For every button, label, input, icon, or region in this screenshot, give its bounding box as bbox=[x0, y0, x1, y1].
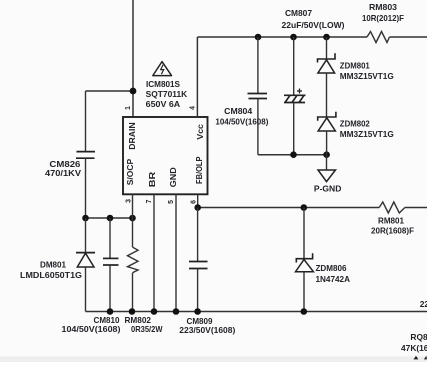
node rail CM809 bbox=[194, 308, 201, 315]
resistor RQ8xx top marks bbox=[414, 356, 419, 360]
svg-text:SQT7011K: SQT7011K bbox=[146, 89, 188, 99]
node bus pin3 bbox=[129, 215, 136, 222]
svg-text:104/50V(1608): 104/50V(1608) bbox=[62, 324, 121, 334]
node mid rail CM807 bbox=[290, 151, 297, 158]
node rail CM810 bbox=[107, 308, 114, 315]
svg-text:Vcc: Vcc bbox=[195, 124, 205, 140]
svg-text:BR: BR bbox=[147, 172, 157, 188]
wire top rail bbox=[197, 36, 367, 38]
warning triangle bbox=[153, 62, 172, 76]
svg-text:DM801: DM801 bbox=[40, 260, 66, 270]
wire lower-left bus bbox=[86, 217, 133, 219]
svg-text:MM3Z15VT1G: MM3Z15VT1G bbox=[340, 71, 394, 81]
wire pin4 to top rail bbox=[196, 37, 198, 117]
svg-text:RQ80: RQ80 bbox=[410, 332, 427, 342]
diode DM801 bbox=[20, 218, 95, 312]
zener ZDM802 bbox=[318, 112, 394, 155]
svg-text:7: 7 bbox=[146, 199, 153, 203]
svg-text:0R35/2W: 0R35/2W bbox=[131, 324, 163, 334]
svg-text:S/OCP: S/OCP bbox=[125, 158, 135, 185]
svg-text:223: 223 bbox=[420, 299, 427, 309]
wire pin3 stub bbox=[132, 194, 134, 218]
svg-text:ZDM806: ZDM806 bbox=[316, 263, 347, 273]
bottom divider band bbox=[0, 357, 427, 363]
node rail RM802 bbox=[129, 308, 136, 315]
node pin6 bbox=[194, 204, 201, 211]
node ZDM806 top bbox=[301, 204, 308, 211]
svg-text:104/50V(1608): 104/50V(1608) bbox=[215, 116, 268, 126]
node bus CM810 bbox=[107, 215, 114, 222]
wire bottom rail bbox=[86, 311, 427, 313]
svg-text:5: 5 bbox=[168, 200, 175, 204]
svg-text:47K(160: 47K(160 bbox=[401, 343, 427, 353]
IC ICM801S box bbox=[123, 117, 208, 194]
zener ZDM801 bbox=[318, 37, 394, 117]
svg-text:RM803: RM803 bbox=[369, 2, 397, 12]
svg-text:22uF/50V(LOW): 22uF/50V(LOW) bbox=[282, 20, 345, 30]
resistor RM801 bbox=[371, 202, 414, 236]
svg-text:DRAIN: DRAIN bbox=[127, 122, 137, 150]
wire FB/OLP row bbox=[198, 207, 380, 209]
svg-text:ICM801S: ICM801S bbox=[146, 79, 180, 89]
svg-text:20R(1608)F: 20R(1608)F bbox=[371, 226, 414, 236]
svg-text:FB/OLP: FB/OLP bbox=[194, 156, 204, 184]
svg-text:650V 6A: 650V 6A bbox=[146, 99, 181, 109]
wire pin6 stub bbox=[197, 194, 199, 207]
node rail pin5 bbox=[173, 308, 180, 315]
svg-text:LMDL6050T1G: LMDL6050T1G bbox=[20, 270, 82, 280]
resistor RM803 bbox=[362, 2, 404, 43]
wire horizontal to CM826 bbox=[86, 90, 134, 92]
svg-text:GND: GND bbox=[168, 167, 178, 187]
ground P-GND bbox=[314, 155, 342, 194]
node bus left bbox=[82, 215, 89, 222]
node rail zener bbox=[323, 34, 330, 41]
node rail ZDM806 bbox=[301, 308, 308, 315]
wire drain vertical from top bbox=[132, 0, 134, 117]
svg-text:223/50V(1608): 223/50V(1608) bbox=[179, 325, 235, 335]
svg-text:4: 4 bbox=[189, 106, 196, 110]
capacitor CM807 electrolytic bbox=[282, 8, 345, 155]
svg-text:1: 1 bbox=[125, 106, 132, 110]
node mid rail zener bbox=[323, 151, 330, 158]
node rail pin7 bbox=[151, 308, 158, 315]
svg-text:ZDM802: ZDM802 bbox=[340, 119, 370, 129]
svg-text:1N4742A: 1N4742A bbox=[316, 274, 351, 284]
svg-text:470/1KV: 470/1KV bbox=[45, 168, 81, 178]
wire pin7 to bottom rail bbox=[153, 194, 155, 311]
wire pin5 to bottom rail bbox=[175, 194, 177, 311]
zener ZDM806 bbox=[296, 208, 351, 312]
node drain junction bbox=[130, 88, 137, 95]
capacitor CM809 bbox=[179, 208, 235, 336]
wire mid rail bbox=[258, 154, 327, 156]
svg-text:CM807: CM807 bbox=[285, 8, 312, 18]
svg-text:ZDM801: ZDM801 bbox=[340, 61, 370, 71]
capacitor CM804 bbox=[215, 37, 268, 155]
svg-text:RM801: RM801 bbox=[378, 216, 404, 226]
svg-text:MM3Z15VT1G: MM3Z15VT1G bbox=[340, 129, 394, 139]
node rail CM807 bbox=[290, 34, 297, 41]
svg-text:P-GND: P-GND bbox=[314, 184, 342, 194]
node rail CM804 bbox=[255, 34, 262, 41]
svg-text:CM804: CM804 bbox=[224, 106, 252, 116]
capacitor CM810 bbox=[62, 218, 121, 334]
svg-text:6: 6 bbox=[190, 200, 197, 204]
capacitor CM826 bbox=[45, 91, 95, 218]
svg-text:10R(2012)F: 10R(2012)F bbox=[362, 13, 404, 23]
resistor RM802 bbox=[125, 218, 163, 334]
svg-text:3: 3 bbox=[125, 199, 132, 203]
